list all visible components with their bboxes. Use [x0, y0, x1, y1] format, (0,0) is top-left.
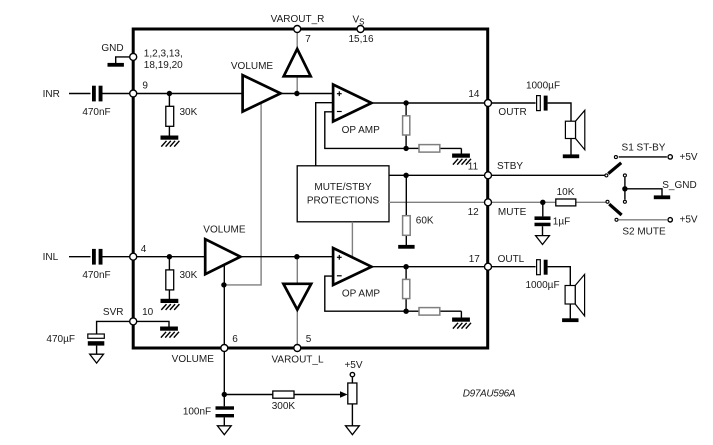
svg-text:PROTECTIONS: PROTECTIONS: [307, 195, 380, 206]
svg-text:S2 MUTE: S2 MUTE: [622, 227, 666, 238]
svg-text:1µF: 1µF: [553, 217, 570, 228]
svg-text:+5V: +5V: [680, 215, 698, 226]
svg-text:VOLUME: VOLUME: [231, 61, 274, 72]
svg-text:17: 17: [469, 254, 481, 265]
svg-text:100nF: 100nF: [183, 406, 211, 417]
svg-text:VOLUME: VOLUME: [203, 224, 246, 235]
svg-text:STBY: STBY: [497, 161, 523, 172]
svg-text:OUTR: OUTR: [498, 107, 526, 118]
svg-text:OP AMP: OP AMP: [342, 125, 380, 136]
svg-text:VAROUT_L: VAROUT_L: [271, 355, 323, 366]
svg-text:S1 ST-BY: S1 ST-BY: [622, 142, 666, 153]
svg-text:60K: 60K: [416, 216, 434, 227]
svg-text:+5V: +5V: [680, 152, 698, 163]
svg-text:MUTE/STBY: MUTE/STBY: [314, 182, 372, 193]
svg-text:OUTL: OUTL: [498, 254, 525, 265]
svg-text:18,19,20: 18,19,20: [144, 60, 183, 71]
svg-text:10: 10: [142, 307, 154, 318]
svg-text:+5V: +5V: [344, 360, 362, 371]
svg-text:5: 5: [306, 334, 312, 345]
svg-text:OP AMP: OP AMP: [342, 288, 380, 299]
svg-text:7: 7: [305, 34, 311, 45]
svg-text:1000µF: 1000µF: [525, 280, 559, 291]
svg-text:SVR: SVR: [103, 307, 124, 318]
svg-text:1000µF: 1000µF: [526, 81, 560, 92]
svg-text:10K: 10K: [557, 187, 575, 198]
svg-text:14: 14: [468, 89, 480, 100]
svg-text:GND: GND: [101, 43, 123, 54]
svg-text:12: 12: [468, 207, 480, 218]
svg-text:VS: VS: [353, 15, 365, 27]
svg-text:VOLUME: VOLUME: [172, 354, 215, 365]
svg-text:30K: 30K: [180, 107, 198, 118]
svg-text:MUTE: MUTE: [498, 207, 527, 218]
svg-text:VAROUT_R: VAROUT_R: [271, 14, 325, 25]
svg-text:470nF: 470nF: [82, 107, 110, 118]
svg-text:1,2,3,13,: 1,2,3,13,: [144, 48, 183, 59]
svg-text:470nF: 470nF: [82, 270, 110, 281]
svg-text:4: 4: [141, 244, 147, 255]
svg-text:6: 6: [232, 334, 238, 345]
svg-text:INL: INL: [43, 252, 59, 263]
svg-text:30K: 30K: [180, 270, 198, 281]
svg-text:470µF: 470µF: [46, 334, 75, 345]
svg-text:11: 11: [468, 162, 479, 173]
svg-text:9: 9: [142, 80, 148, 91]
svg-text:300K: 300K: [272, 401, 296, 412]
svg-text:15,16: 15,16: [348, 34, 373, 45]
svg-text:S_GND: S_GND: [662, 180, 696, 191]
svg-text:INR: INR: [43, 89, 60, 100]
svg-text:D97AU596A: D97AU596A: [463, 388, 516, 399]
